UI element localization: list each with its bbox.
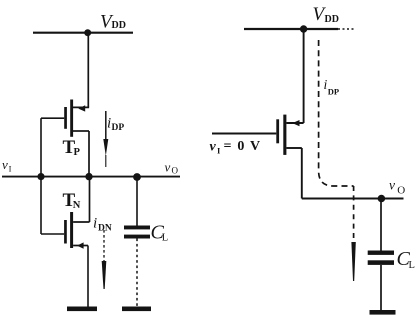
wire: VDD supply rail (right) xyxy=(244,28,338,30)
label TP xyxy=(63,137,81,158)
transistor (PMOS, right) xyxy=(212,115,304,155)
top lead of CL xyxy=(136,177,138,226)
drain lead xyxy=(286,147,301,149)
gate bar of TN xyxy=(64,220,67,244)
bottom lead xyxy=(380,265,382,310)
wire: TP drain down to output node xyxy=(88,131,90,177)
capacitor CL (left) xyxy=(124,177,150,307)
bottom plate of CL xyxy=(124,235,150,239)
wire: TN source down to ground xyxy=(87,246,89,307)
label iDN xyxy=(93,216,112,234)
node vO (right) label xyxy=(389,178,405,197)
svg-text:v: v xyxy=(389,178,395,193)
wire: VDD rail to PMOS source (right) xyxy=(303,29,305,123)
ground under TN xyxy=(67,307,97,312)
source arrow of TP xyxy=(78,105,85,111)
svg-text:= 0 V: = 0 V xyxy=(224,139,262,154)
wire: gate column down to TN gate xyxy=(41,118,64,234)
channel bar of TN xyxy=(70,212,73,248)
arrowhead of dashed current path xyxy=(351,242,355,281)
source lead of TP xyxy=(73,106,89,108)
label TN xyxy=(63,190,81,211)
wire: drain down to output line (right) xyxy=(301,148,303,199)
node vO (left) label xyxy=(165,160,179,176)
label CL (left) xyxy=(151,222,169,244)
ground under CL (right) xyxy=(370,310,396,315)
top plate xyxy=(368,251,394,255)
bottom lead of CL (dotted) xyxy=(136,239,138,307)
gate bar of TP xyxy=(64,107,67,129)
dashed current path down leg xyxy=(353,186,355,243)
wire: input/output horizontal line (left) xyxy=(2,176,180,178)
wire: output line (right) xyxy=(302,198,404,200)
top plate of CL xyxy=(124,226,150,230)
svg-text:DD: DD xyxy=(325,14,339,25)
label vI = 0 V xyxy=(210,139,262,156)
top lead xyxy=(380,199,382,251)
svg-text:DD: DD xyxy=(112,20,126,31)
svg-text:L: L xyxy=(162,233,168,244)
svg-text:L: L xyxy=(409,260,415,271)
junction: drain node on output line xyxy=(85,173,92,180)
svg-text:P: P xyxy=(74,147,81,158)
gate bar xyxy=(276,119,279,143)
wire: VDD supply rail (left) xyxy=(33,32,133,34)
junction on VDD rail (right) xyxy=(300,25,307,32)
svg-text:DP: DP xyxy=(112,123,125,133)
transistor TN (NMOS) xyxy=(64,212,89,249)
current arrow iDN xyxy=(102,230,107,289)
svg-text:DN: DN xyxy=(98,224,112,234)
svg-text:v: v xyxy=(2,157,8,172)
junction: capacitor node (right) xyxy=(378,195,386,203)
svg-text:I: I xyxy=(9,164,12,174)
junction: capacitor node on output line xyxy=(133,173,141,181)
drain lead of TN xyxy=(73,221,89,223)
node vI label xyxy=(2,157,12,174)
svg-text:i: i xyxy=(93,216,97,232)
capacitor CL (right) xyxy=(368,199,394,311)
junction on VDD rail (left) xyxy=(84,29,91,36)
node VDD (right) label xyxy=(313,4,339,25)
dashed current path iDP (right) xyxy=(319,40,354,186)
svg-text:v: v xyxy=(210,140,217,155)
svg-text:O: O xyxy=(397,185,405,197)
current arrow iDP (left) xyxy=(103,111,108,167)
gate lead xyxy=(212,133,276,135)
wire: VDD rail to TP source xyxy=(87,33,89,108)
transistor TP (PMOS) xyxy=(41,100,89,137)
svg-text:O: O xyxy=(172,166,179,176)
node VDD (left) label xyxy=(100,12,126,33)
bottom plate xyxy=(368,260,394,265)
gate lead of TP xyxy=(41,117,64,119)
svg-text:v: v xyxy=(165,160,171,175)
wire: output node down to TN drain xyxy=(89,177,91,222)
ground under CL (left) xyxy=(122,307,151,312)
svg-text:N: N xyxy=(73,200,81,211)
wire: VDD rail dotted continuation xyxy=(338,28,354,30)
source lead xyxy=(286,122,303,124)
source arrow xyxy=(292,120,299,126)
svg-text:DP: DP xyxy=(328,87,339,97)
drain lead of TP xyxy=(73,130,89,132)
junction: gate node on input line xyxy=(37,173,44,180)
label CL (right) xyxy=(397,248,415,271)
source lead of TN xyxy=(73,245,88,247)
channel bar of TP xyxy=(70,100,73,137)
label iDP (right) xyxy=(324,77,340,97)
label iDP (left) xyxy=(107,116,124,134)
channel bar xyxy=(283,115,286,155)
source arrow of TN xyxy=(77,242,84,248)
